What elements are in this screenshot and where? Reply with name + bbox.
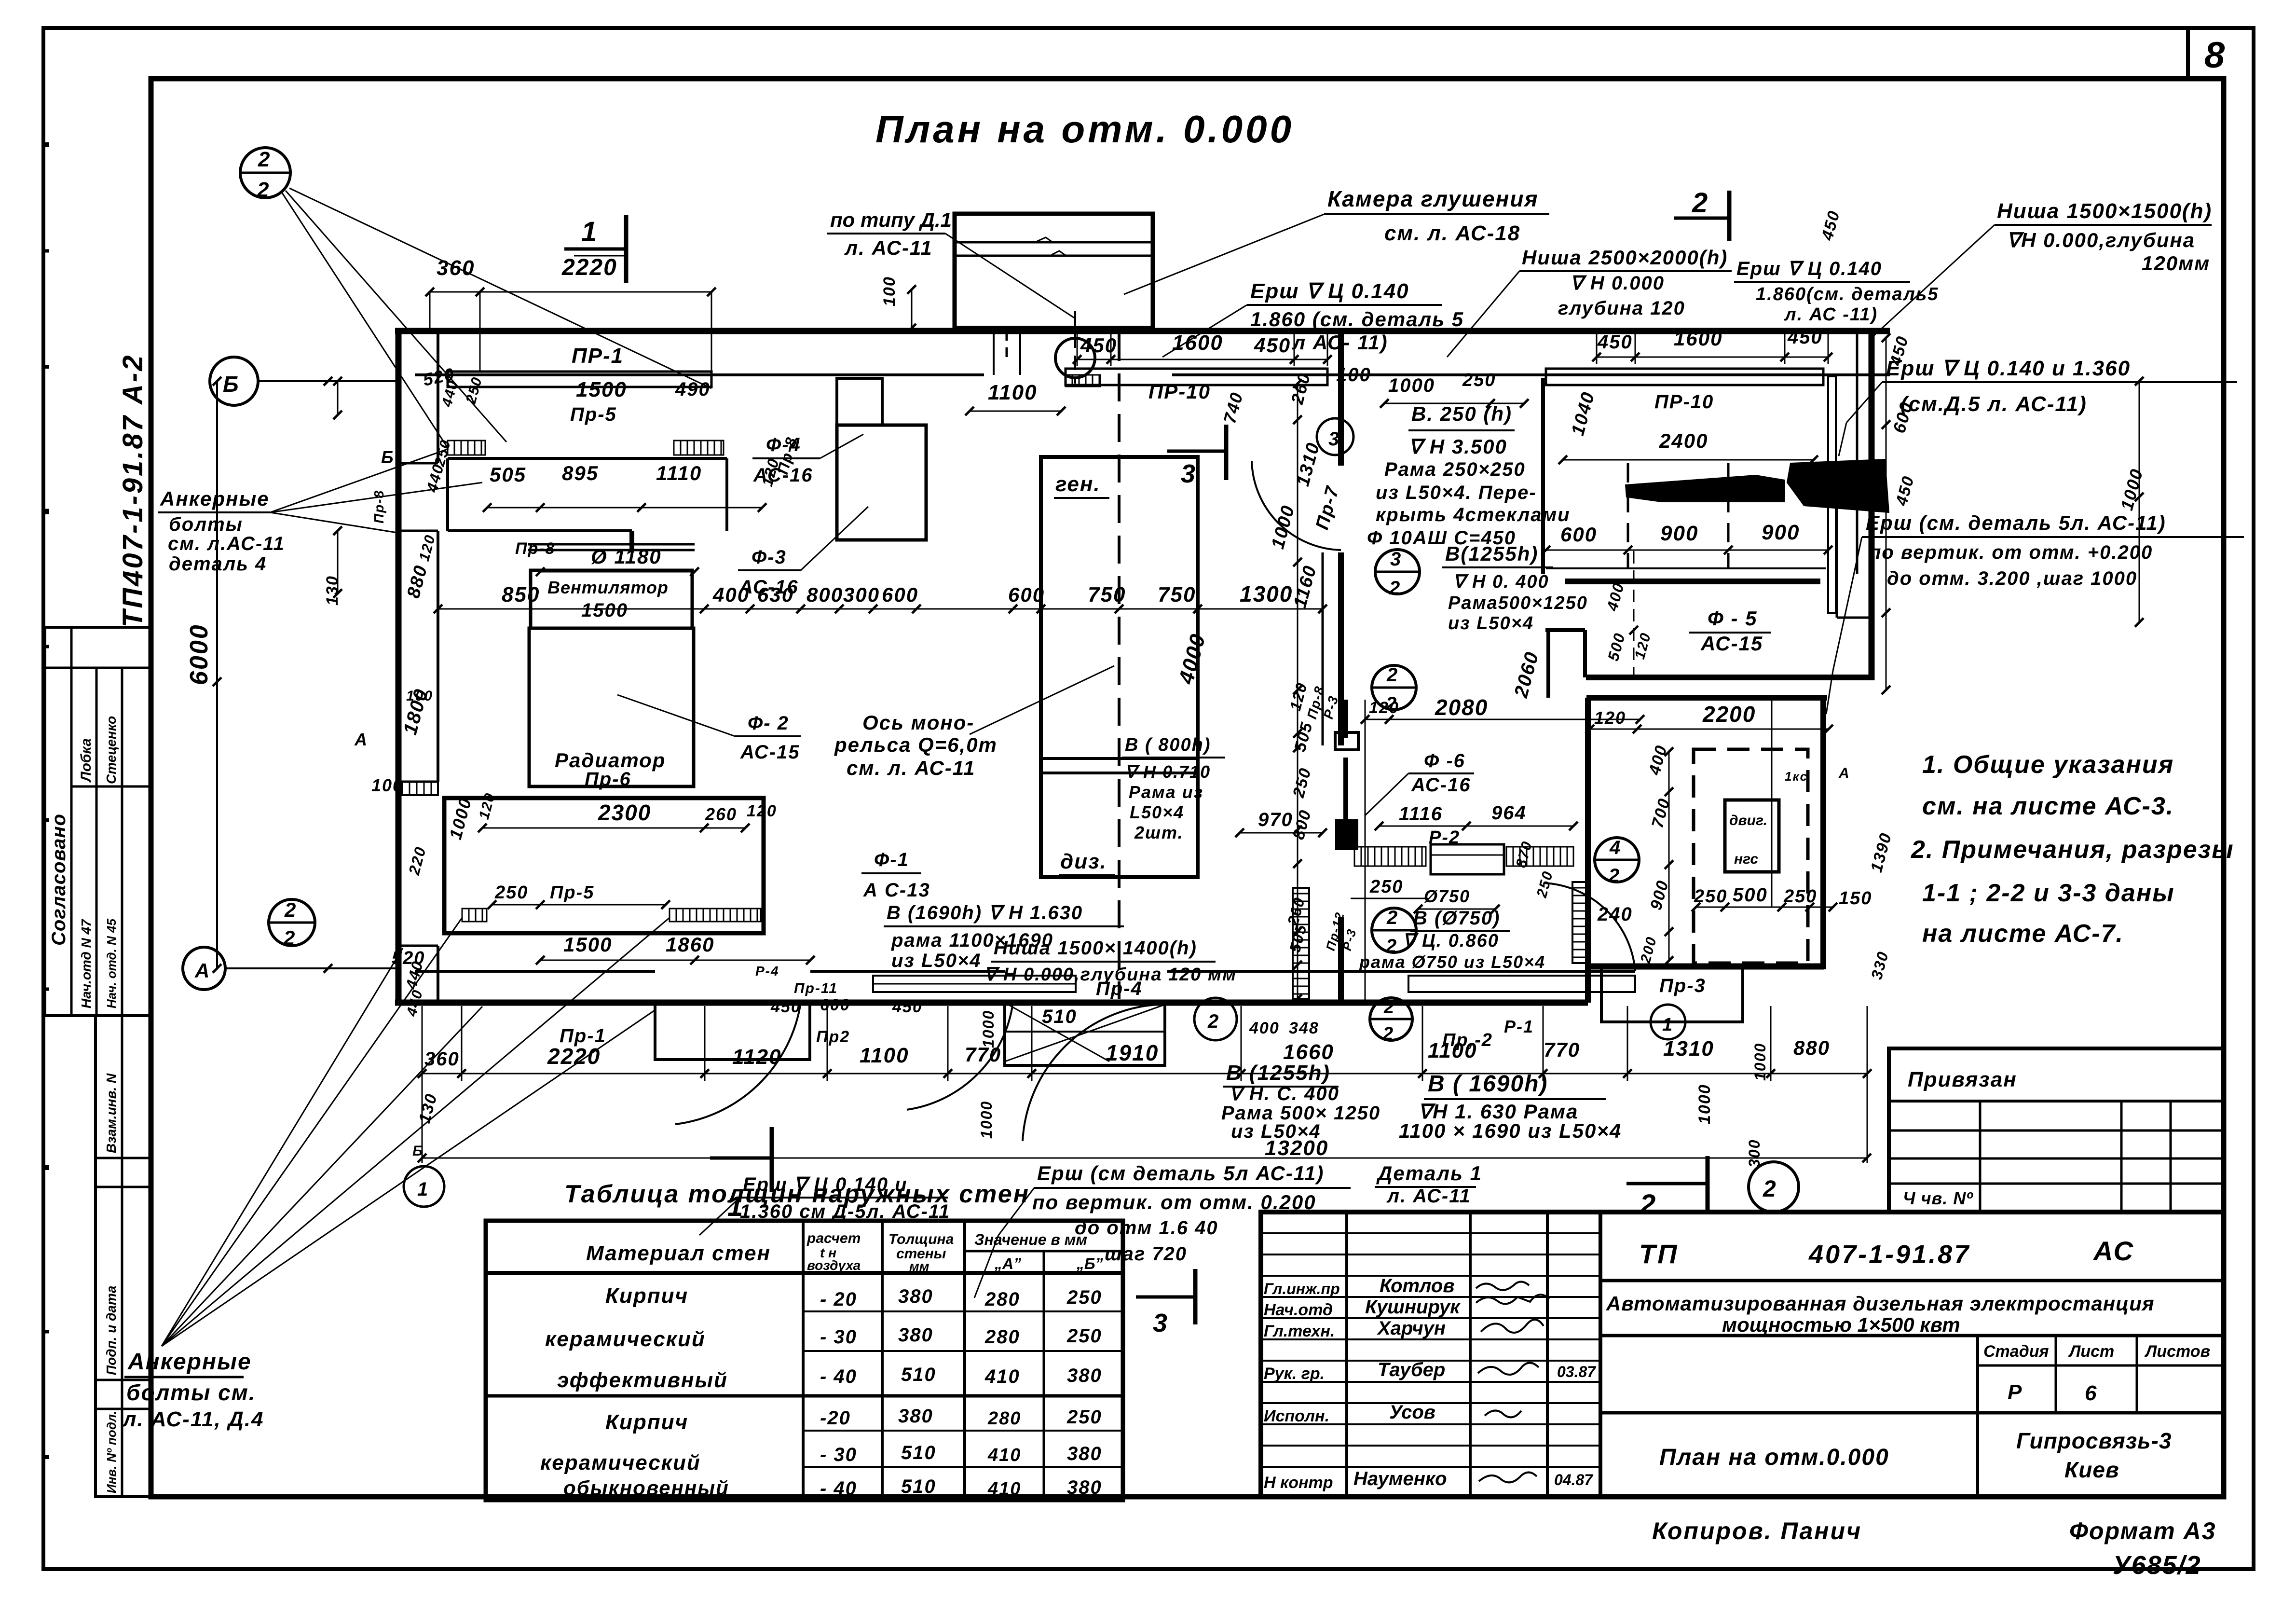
svg-text:250: 250	[1694, 886, 1727, 907]
svg-text:250: 250	[463, 375, 486, 406]
svg-text:диз.: диз.	[1060, 850, 1107, 873]
svg-text:В(1255h): В(1255h)	[1445, 542, 1538, 565]
svg-text:Пр-5: Пр-5	[550, 882, 594, 903]
svg-text:Ф-1: Ф-1	[874, 849, 909, 870]
svg-text:Инв. Nº подл.: Инв. Nº подл.	[104, 1411, 119, 1493]
svg-text:Ø 1180: Ø 1180	[591, 545, 662, 568]
svg-text:В ( 1690h): В ( 1690h)	[1428, 1071, 1548, 1097]
svg-text:250: 250	[1066, 1287, 1102, 1308]
svg-text:2: 2	[1640, 1189, 1656, 1220]
svg-text:АС-16: АС-16	[1411, 774, 1471, 796]
door arc bottom-left	[675, 1003, 801, 1124]
svg-text:505: 505	[490, 463, 526, 486]
right room dims 600 900 900	[1546, 550, 1828, 551]
svg-text:А С-13: А С-13	[863, 880, 930, 901]
title block stage cells	[1600, 1411, 2224, 1415]
svg-text:л. АС-11, Д.4: л. АС-11, Д.4	[122, 1407, 264, 1431]
section mark 2 top-right	[1674, 217, 1729, 220]
svg-text:л. АС -11): л. АС -11)	[1784, 304, 1878, 325]
hatched lintel top-left b	[674, 441, 724, 455]
svg-text:на листе АС-7.: на листе АС-7.	[1922, 920, 2124, 948]
axis circle 2/2 top-left	[240, 148, 290, 198]
svg-text:260: 260	[705, 804, 737, 824]
svg-text:400: 400	[1603, 580, 1627, 613]
svg-text:∇ Н 0.000: ∇ Н 0.000	[1570, 273, 1665, 294]
svg-text:В (1690h) ∇ Н 1.630: В (1690h) ∇ Н 1.630	[887, 902, 1083, 924]
svg-text:510: 510	[901, 1476, 936, 1497]
top right dim chain 450 1600 450	[1597, 357, 1828, 358]
axis circle 1 bottom-left	[404, 1166, 444, 1207]
svg-text:330: 330	[1868, 949, 1892, 981]
svg-text:505: 505	[1286, 922, 1310, 954]
svg-text:1040: 1040	[1568, 389, 1599, 438]
svg-text:Камера глушения: Камера глушения	[1327, 186, 1539, 211]
svg-text:Пр,-2: Пр,-2	[1442, 1030, 1493, 1050]
bottom chain extension lines	[422, 1006, 423, 1081]
svg-text:407-1-91.87: 407-1-91.87	[1808, 1240, 1970, 1269]
svg-text:6: 6	[2085, 1381, 2097, 1405]
scan smudge blob	[1626, 475, 1785, 502]
svg-text:250: 250	[1462, 370, 1496, 390]
svg-text:Лист: Лист	[2068, 1342, 2114, 1361]
svg-text:1500: 1500	[576, 378, 627, 401]
svg-text:100: 100	[371, 775, 403, 795]
svg-text:Гипросвязь-3: Гипросвязь-3	[2016, 1428, 2172, 1453]
svg-text:Р-1: Р-1	[1504, 1017, 1534, 1036]
svg-text:2: 2	[1207, 1011, 1218, 1032]
axis circle B	[210, 357, 258, 405]
svg-text:Ф-4: Ф-4	[766, 434, 801, 455]
svg-text:Пр-8: Пр-8	[371, 490, 386, 524]
section mark 1 top	[564, 248, 626, 251]
svg-text:1110: 1110	[656, 462, 702, 484]
svg-text:410: 410	[987, 1479, 1021, 1499]
svg-text:2080: 2080	[1435, 695, 1488, 720]
svg-text:- 30: - 30	[820, 1444, 857, 1465]
left wall window jambs	[398, 462, 438, 465]
svg-text:770: 770	[1544, 1038, 1580, 1061]
svg-text:Анкерные: Анкерные	[160, 487, 270, 510]
wall thickness table grid	[486, 1221, 1123, 1500]
title block outer box	[1261, 1212, 2224, 1497]
svg-text:Исполн.: Исполн.	[1264, 1407, 1329, 1425]
svg-text:АС-16: АС-16	[753, 465, 813, 486]
svg-text:Толщина: Толщина	[888, 1231, 954, 1247]
svg-text:Пр-7: Пр-7	[1312, 483, 1343, 532]
svg-text:Ниша 1500×1500(h): Ниша 1500×1500(h)	[1997, 199, 2212, 223]
svg-text:„А”: „А”	[994, 1255, 1021, 1272]
svg-text:510: 510	[1042, 1006, 1077, 1027]
svg-text:750: 750	[1158, 583, 1196, 607]
extension line x2830	[1365, 700, 1366, 1001]
svg-text:из L50×4. Пере-: из L50×4. Пере-	[1376, 482, 1537, 503]
svg-text:03.87: 03.87	[1557, 1363, 1597, 1380]
svg-text:100: 100	[1336, 364, 1371, 386]
svg-text:Нач.отд N 47: Нач.отд N 47	[79, 919, 94, 1008]
dvig solid box	[1725, 800, 1779, 872]
svg-text:Киев: Киев	[2064, 1457, 2119, 1482]
svg-text:∇ Н 0.000,глубина 120 мм: ∇ Н 0.000,глубина 120 мм	[984, 965, 1237, 985]
hatched lintel bottom-left b	[670, 909, 761, 922]
title block header row	[1600, 1279, 2224, 1282]
bottom overall dim 13200 line	[422, 1158, 1867, 1159]
svg-text:130: 130	[415, 1091, 441, 1125]
hatched wall band right vertical	[1572, 882, 1588, 963]
partition room top-left	[448, 457, 727, 460]
svg-text:450: 450	[1787, 327, 1823, 348]
svg-text:280: 280	[987, 1408, 1021, 1429]
svg-text:3: 3	[1390, 549, 1401, 570]
axis circle 2/2 at fi750	[1372, 908, 1416, 952]
svg-text:керамический: керамический	[545, 1327, 706, 1351]
svg-text:1: 1	[417, 1179, 428, 1200]
svg-text:Ось моно-: Ось моно-	[862, 711, 974, 734]
svg-text:Усов: Усов	[1389, 1402, 1435, 1423]
svg-text:ТП: ТП	[1639, 1239, 1679, 1269]
svg-text:из L50×4: из L50×4	[891, 950, 982, 971]
dims 250 Pr-5 lower	[492, 904, 666, 906]
door arc right room	[1544, 883, 1635, 971]
svg-text:ПР-1: ПР-1	[572, 344, 624, 368]
axis circle 2/2 right	[1372, 665, 1416, 710]
porch cross diagonals	[1005, 1005, 1165, 1061]
window PR-1 top-left	[448, 372, 711, 387]
svg-text:400: 400	[1249, 1019, 1280, 1037]
svg-text:-20: -20	[820, 1407, 851, 1429]
svg-text:рельса Q=6,0т: рельса Q=6,0т	[834, 733, 998, 757]
svg-text:по типу Д.1: по типу Д.1	[830, 208, 952, 231]
svg-text:В (Ø750): В (Ø750)	[1413, 908, 1501, 929]
svg-text:1116: 1116	[1399, 803, 1443, 825]
svg-text:600: 600	[1008, 583, 1045, 606]
svg-text:600: 600	[882, 583, 918, 606]
vertical dim line near interior wall	[1297, 384, 1298, 999]
svg-text:„Б”: „Б”	[1076, 1255, 1103, 1272]
leader lines bottom-left anchor fan	[162, 948, 403, 1346]
privyazan grid	[1889, 1130, 2224, 1132]
dvig dashed room lower right	[1694, 749, 1808, 963]
svg-text:Взам.инв. N: Взам.инв. N	[104, 1073, 119, 1153]
privyazan table box	[1889, 1048, 2224, 1212]
svg-text:1100: 1100	[988, 381, 1038, 404]
svg-text:1310: 1310	[1663, 1037, 1714, 1061]
axis circle 4/2 lower right	[1595, 838, 1639, 882]
svg-text:Кирпич: Кирпич	[605, 1284, 688, 1308]
dim 2080 2060	[1365, 719, 1640, 720]
svg-text:2060: 2060	[1510, 649, 1543, 700]
svg-text:380: 380	[1067, 1443, 1102, 1464]
svg-text:250: 250	[1066, 1406, 1102, 1428]
svg-text:Ерш ∇ Ц 0.140 и 1.360: Ерш ∇ Ц 0.140 и 1.360	[1886, 357, 2131, 380]
svg-text:520: 520	[392, 948, 425, 968]
svg-text:мм: мм	[909, 1259, 929, 1274]
svg-text:2220: 2220	[547, 1044, 601, 1069]
svg-text:1-1 ; 2-2 и 3-3 даны: 1-1 ; 2-2 и 3-3 даны	[1922, 879, 2175, 907]
svg-text:800: 800	[1289, 808, 1315, 841]
svg-text:1120: 1120	[732, 1045, 782, 1069]
svg-text:2200: 2200	[1702, 702, 1756, 727]
svg-text:до отм. 3.200 ,шаг 1000: до отм. 3.200 ,шаг 1000	[1887, 568, 2137, 589]
svg-text:У685/2: У685/2	[2113, 1551, 2201, 1580]
svg-text:АС-15: АС-15	[1700, 632, 1763, 655]
svg-text:АС-16: АС-16	[738, 577, 799, 598]
svg-text:Подп. и дата: Подп. и дата	[104, 1286, 119, 1375]
wall bottom outer face	[395, 1000, 1588, 1006]
svg-text:1000: 1000	[2117, 466, 2146, 512]
svg-text:2: 2	[283, 926, 295, 949]
wall top inner face	[415, 373, 984, 376]
svg-text:Б: Б	[381, 447, 394, 467]
svg-text:∇ Н 0. 400: ∇ Н 0. 400	[1453, 572, 1549, 592]
svg-text:120: 120	[1632, 631, 1654, 661]
svg-text:л АС- 11): л АС- 11)	[1292, 331, 1388, 354]
svg-text:см. л. АС-18: см. л. АС-18	[1384, 221, 1520, 245]
room lower-left 2300	[444, 798, 764, 933]
svg-text:800: 800	[806, 583, 843, 606]
svg-text:970: 970	[1258, 809, 1293, 830]
svg-text:Таубер: Таубер	[1378, 1359, 1445, 1380]
svg-text:700: 700	[1648, 796, 1674, 830]
R-2 machine box	[1431, 844, 1504, 874]
svg-text:Кирпич: Кирпич	[605, 1410, 688, 1434]
svg-text:400: 400	[1645, 743, 1671, 777]
svg-text:см. на листе АС-3.: см. на листе АС-3.	[1922, 792, 2174, 820]
door arc interior	[1252, 461, 1341, 550]
svg-text:нгс: нгс	[1734, 851, 1758, 867]
svg-text:∇ Н 3.500: ∇ Н 3.500	[1408, 435, 1507, 458]
interior wall horizontal right wing room bottom	[1565, 579, 1820, 584]
svg-text:450: 450	[1892, 474, 1918, 508]
axis circle A	[183, 947, 225, 990]
svg-text:В ( 800h): В ( 800h)	[1125, 735, 1211, 755]
svg-text:2: 2	[1608, 865, 1619, 886]
note V250 block right of wall	[1384, 403, 1524, 404]
svg-text:Ф - 5: Ф - 5	[1708, 607, 1757, 630]
svg-text:2. Примечания, разрезы: 2. Примечания, разрезы	[1911, 836, 2234, 864]
svg-text:850: 850	[502, 583, 540, 607]
dashed dim line F-5 room	[1633, 551, 1635, 677]
svg-text:2: 2	[257, 178, 269, 202]
svg-text:2шт.: 2шт.	[1134, 823, 1184, 842]
svg-text:300: 300	[1746, 1139, 1763, 1168]
svg-text:Ерш (см деталь 5л АС-11): Ерш (см деталь 5л АС-11)	[1037, 1162, 1324, 1185]
svg-text:1000: 1000	[445, 795, 475, 841]
svg-text:1000: 1000	[1268, 503, 1299, 551]
dims 1500 1860 lower	[540, 960, 810, 961]
title block signature columns	[1345, 1212, 1348, 1497]
svg-text:Значение в мм: Значение в мм	[974, 1231, 1087, 1248]
niche on right wall	[1837, 496, 1872, 498]
monorail dashed axis	[1118, 333, 1121, 999]
svg-text:1000: 1000	[1695, 1084, 1714, 1124]
hatched lintel top-left a	[448, 441, 485, 455]
svg-text:болты: болты	[169, 514, 243, 535]
svg-text:1100 × 1690 из L50×4: 1100 × 1690 из L50×4	[1399, 1119, 1622, 1142]
F-4 box	[837, 425, 926, 540]
svg-text:2400: 2400	[1659, 429, 1708, 452]
dim 2400 line	[1563, 459, 1814, 461]
svg-text:Р-2: Р-2	[1429, 827, 1460, 848]
svg-text:Листов: Листов	[2144, 1342, 2210, 1361]
hatched band left wall middle	[398, 782, 438, 795]
svg-text:410: 410	[984, 1366, 1020, 1387]
hatched lintel top-right	[1066, 375, 1100, 386]
svg-text:∇ Ц. 0.860: ∇ Ц. 0.860	[1403, 931, 1499, 951]
svg-text:Согласовано: Согласовано	[48, 813, 69, 946]
svg-text:Нач. отд. N 45: Нач. отд. N 45	[104, 919, 119, 1008]
svg-text:ПР-10: ПР-10	[1148, 380, 1211, 403]
lower stamp table box	[96, 1016, 150, 1497]
wall bottom inner face	[415, 970, 655, 973]
svg-text:Пр-3: Пр-3	[1659, 975, 1706, 996]
svg-text:6000: 6000	[185, 623, 213, 685]
svg-text:13200: 13200	[1265, 1136, 1328, 1160]
interior wall F-5 room bottom	[1586, 675, 1872, 680]
svg-text:120: 120	[1369, 699, 1399, 717]
svg-text:1.860 (см. деталь 5: 1.860 (см. деталь 5	[1250, 308, 1464, 331]
svg-text:360: 360	[437, 256, 475, 280]
svg-text:500: 500	[1733, 884, 1768, 906]
svg-text:Привязан: Привязан	[1908, 1068, 2017, 1091]
dims 2300 260 120 room	[482, 827, 745, 829]
svg-text:Ниша 1500× 1400(h): Ниша 1500× 1400(h)	[994, 937, 1197, 959]
svg-text:- 40: - 40	[820, 1478, 857, 1499]
svg-text:(см.Д.5 л. АС-11): (см.Д.5 л. АС-11)	[1900, 392, 2087, 416]
svg-text:2: 2	[1383, 997, 1394, 1018]
svg-text:ген.: ген.	[1055, 472, 1101, 496]
svg-text:100: 100	[406, 688, 433, 704]
svg-text:А: А	[1838, 765, 1850, 781]
dashed axes upper right room	[1627, 463, 1629, 569]
svg-text:Ø750: Ø750	[1424, 886, 1470, 906]
svg-text:1кс: 1кс	[1785, 769, 1808, 784]
axis circle 1 on top wall	[1055, 338, 1095, 378]
svg-text:2220: 2220	[561, 255, 617, 280]
svg-text:3: 3	[1181, 459, 1196, 488]
svg-text:Рама500×1250: Рама500×1250	[1448, 593, 1588, 613]
window band bottom right	[1408, 976, 1635, 992]
svg-text:л. АС-11: л. АС-11	[844, 236, 933, 259]
room dims 505 895 1110	[487, 507, 762, 509]
window PR-10 top-right	[1546, 369, 1823, 385]
top center dim chain 450 1600 450	[1077, 359, 1327, 360]
svg-text:двиг.: двиг.	[1729, 813, 1767, 828]
svg-text:100: 100	[880, 276, 899, 306]
svg-text:керамический: керамический	[540, 1451, 701, 1475]
svg-text:L50×4: L50×4	[1130, 802, 1184, 822]
svg-text:220: 220	[405, 844, 429, 877]
svg-text:Ф-3: Ф-3	[752, 547, 787, 568]
axis circle 3/2 right	[1375, 550, 1420, 594]
svg-text:Котлов: Котлов	[1380, 1275, 1455, 1296]
svg-text:В (1255h): В (1255h)	[1226, 1061, 1330, 1085]
svg-text:1390: 1390	[1867, 830, 1895, 874]
svg-text:8: 8	[2204, 35, 2226, 76]
svg-text:895: 895	[562, 462, 599, 484]
svg-text:1000: 1000	[1388, 375, 1435, 396]
svg-text:250: 250	[1289, 766, 1315, 800]
svg-text:380: 380	[898, 1324, 933, 1346]
svg-text:1160: 1160	[1290, 563, 1321, 610]
svg-text:880: 880	[1793, 1036, 1830, 1059]
svg-text:- 40: - 40	[820, 1366, 857, 1387]
svg-text:250: 250	[494, 882, 528, 903]
svg-text:А: А	[194, 959, 209, 982]
partition step	[629, 531, 634, 550]
svg-text:обыкновенный: обыкновенный	[563, 1476, 729, 1499]
radiator box	[529, 628, 694, 786]
svg-text:Гл.техн.: Гл.техн.	[1264, 1322, 1335, 1340]
svg-text:1: 1	[581, 216, 598, 248]
svg-text:- 20: - 20	[820, 1289, 857, 1310]
svg-text:200: 200	[1638, 935, 1660, 965]
svg-text:Формат А3: Формат А3	[2069, 1517, 2216, 1544]
dim 2200 below wall	[1590, 729, 1829, 730]
svg-text:Харчун: Харчун	[1377, 1318, 1446, 1339]
svg-text:880: 880	[403, 563, 432, 600]
svg-text:л. АС-11: л. АС-11	[1386, 1185, 1471, 1207]
svg-text:150: 150	[1839, 888, 1872, 909]
svg-text:2: 2	[258, 148, 270, 171]
leader lines from 2/2 circle	[286, 191, 506, 442]
svg-text:Науменко: Науменко	[1353, 1468, 1447, 1489]
svg-text:Рук. гр.: Рук. гр.	[1264, 1365, 1325, 1383]
porch bottom-center	[1005, 1003, 1165, 1065]
axis circle 2 bottom-center	[1194, 998, 1237, 1040]
svg-text:510: 510	[901, 1442, 936, 1463]
svg-text:Ф- 2: Ф- 2	[748, 713, 789, 734]
svg-text:АС-15: АС-15	[740, 742, 800, 763]
svg-text:750: 750	[1088, 583, 1126, 607]
F-4 box small	[837, 378, 882, 425]
door arc bottom-center	[907, 1003, 1013, 1110]
wall left outer face	[396, 331, 402, 1003]
upper stamp table box	[45, 627, 150, 1016]
interior wall piers Pr-8	[1343, 700, 1348, 738]
signature scribbles	[1476, 1282, 1529, 1290]
svg-text:250: 250	[1369, 877, 1403, 897]
svg-text:120: 120	[476, 791, 498, 821]
svg-text:1000: 1000	[980, 1010, 997, 1048]
svg-text:1: 1	[1662, 1015, 1672, 1035]
axis circle 2/2 left-bottom	[269, 899, 315, 946]
svg-text:380: 380	[898, 1406, 933, 1427]
svg-text:Рама из: Рама из	[1129, 782, 1203, 802]
vertical dim line right of wall	[1886, 338, 1887, 690]
svg-text:740: 740	[1219, 390, 1247, 426]
svg-text:250: 250	[1534, 869, 1557, 900]
svg-text:900: 900	[1762, 521, 1800, 544]
svg-text:380: 380	[1067, 1477, 1102, 1498]
svg-text:2: 2	[1382, 1024, 1393, 1044]
svg-text:∇ Н. С. 400: ∇ Н. С. 400	[1229, 1083, 1339, 1104]
svg-text:Пр-8: Пр-8	[515, 539, 555, 558]
porch bottom-right	[1601, 967, 1743, 1022]
svg-text:380: 380	[898, 1286, 933, 1307]
svg-text:2: 2	[284, 898, 296, 921]
svg-text:450: 450	[1080, 334, 1117, 357]
door arc bottom-center mirrored	[1023, 1005, 1158, 1141]
svg-text:505: 505	[1291, 720, 1316, 754]
svg-text:130: 130	[323, 575, 342, 606]
svg-text:Р-4: Р-4	[755, 964, 779, 979]
svg-text:300: 300	[843, 583, 880, 606]
svg-text:Вентилятор: Вентилятор	[547, 578, 669, 597]
svg-text:Ниша 2500×2000(h): Ниша 2500×2000(h)	[1522, 246, 1728, 269]
svg-text:450: 450	[770, 998, 801, 1016]
axis circle 2 bottom right	[1749, 1162, 1799, 1212]
svg-text:870: 870	[1513, 839, 1535, 869]
